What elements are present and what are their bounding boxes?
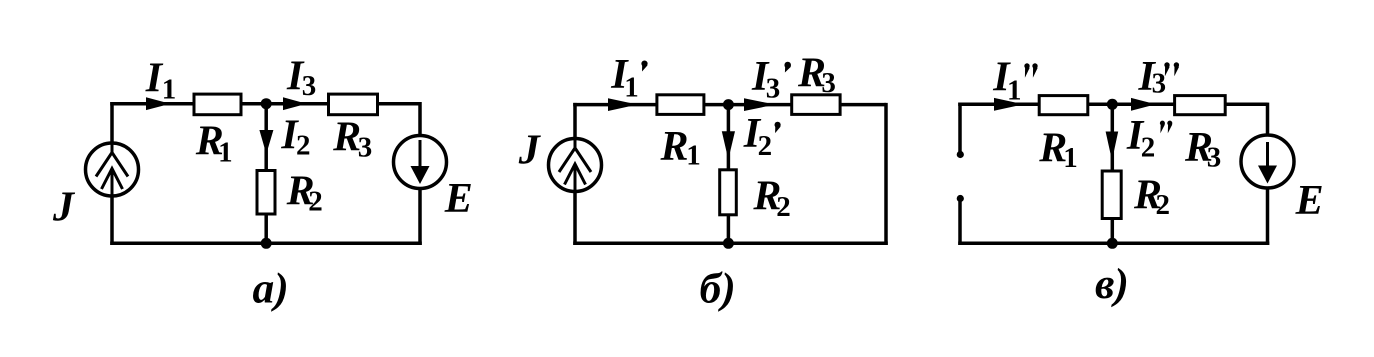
wire bottom (circuit b) [573, 242, 888, 246]
wire right lower (circuit v) [1266, 186, 1270, 245]
svg-text:1: 1 [1007, 75, 1022, 107]
svg-text:1: 1 [686, 140, 701, 172]
svg-text:E: E [444, 176, 473, 222]
svg-text:R: R [332, 114, 361, 160]
emf source E (circuit a) [394, 136, 447, 189]
svg-text:3: 3 [766, 73, 781, 105]
current source J (circuit b) [549, 139, 602, 192]
wire top (circuit v) [958, 103, 1267, 107]
svg-text:1: 1 [162, 73, 177, 105]
emf source E (circuit v) [1241, 135, 1294, 188]
svg-text:1: 1 [624, 72, 639, 104]
resistor R3 (circuit a) [329, 94, 378, 115]
node top junction (circuit a) [261, 98, 272, 109]
svg-text:в): в) [1095, 260, 1129, 308]
svg-text:2: 2 [1141, 132, 1156, 164]
resistor R1 (circuit a) [194, 94, 241, 115]
wire middle branch (circuit v) [1111, 104, 1115, 243]
resistor R1 (circuit v) [1039, 96, 1088, 115]
wire left upper (circuit a) [110, 102, 114, 144]
svg-text:J: J [518, 128, 542, 174]
resistor R2 (circuit b) [720, 170, 737, 215]
svg-text:а): а) [253, 265, 289, 313]
wire middle branch (circuit a) [264, 104, 268, 244]
svg-text:3: 3 [821, 67, 836, 99]
node bottom junction (circuit a) [261, 238, 272, 249]
svg-text:E: E [1295, 178, 1324, 224]
svg-text:1: 1 [218, 136, 233, 168]
current arrow I1 (circuit a) [146, 97, 170, 110]
resistor R3 (circuit v) [1175, 96, 1226, 115]
resistor R2 (circuit a) [257, 171, 275, 215]
svg-text:2: 2 [776, 191, 791, 223]
wire right upper (circuit a) [418, 102, 422, 137]
wire bottom (circuit v) [958, 242, 1269, 246]
current arrow I2' (circuit b) [722, 131, 735, 159]
wire left lower (circuit v) [958, 201, 962, 245]
current arrow I1'' (circuit v) [994, 98, 1024, 111]
wire left lower (circuit b) [573, 191, 577, 246]
wire left lower (circuit a) [110, 195, 114, 245]
wire right lower (circuit a) [418, 187, 422, 245]
svg-text:2: 2 [308, 186, 323, 218]
terminal dot upper (circuit v) [957, 151, 964, 158]
wire top (circuit a) [110, 102, 420, 106]
svg-text:R: R [660, 124, 689, 170]
svg-text:3: 3 [302, 70, 317, 102]
current arrow I3'' (circuit v) [1131, 98, 1156, 111]
wire left upper (circuit b) [573, 103, 577, 140]
resistor R3 (circuit b) [792, 95, 840, 115]
current arrow I3 (circuit a) [283, 97, 307, 110]
svg-text:3: 3 [358, 132, 373, 164]
wire middle branch (circuit b) [727, 105, 731, 244]
current arrow I2 (circuit a) [259, 130, 273, 154]
svg-text:2: 2 [296, 129, 311, 161]
current arrow I3' (circuit b) [744, 98, 775, 111]
wire bottom (circuit a) [110, 242, 422, 246]
svg-text:1: 1 [1063, 142, 1078, 174]
wire top (circuit b) [573, 103, 886, 107]
wire right upper (circuit v) [1266, 103, 1270, 137]
node bottom junction (circuit v) [1107, 238, 1118, 249]
current arrow I1' (circuit b) [608, 98, 638, 111]
svg-text:2: 2 [1156, 189, 1171, 221]
resistor R1 (circuit b) [657, 95, 704, 115]
svg-text:J: J [52, 184, 76, 230]
current source J (circuit a) [86, 143, 139, 196]
svg-text:3: 3 [1152, 68, 1167, 100]
current arrow I2'' (circuit v) [1106, 132, 1119, 161]
terminal dot lower (circuit v) [957, 195, 964, 202]
resistor R2 (circuit v) [1102, 171, 1121, 219]
wire right (circuit b) [884, 103, 888, 245]
svg-text:б): б) [700, 265, 736, 313]
svg-text:2: 2 [758, 130, 773, 162]
svg-text:3: 3 [1207, 142, 1222, 174]
wire left upper (circuit v) [958, 103, 962, 152]
node top junction (circuit v) [1107, 99, 1118, 110]
node top junction (circuit b) [723, 99, 734, 110]
node bottom junction (circuit b) [723, 238, 734, 249]
